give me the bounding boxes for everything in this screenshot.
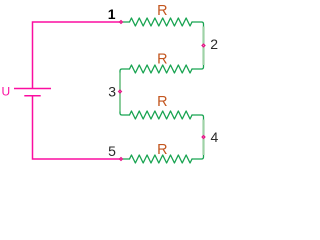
wire : R3 right lead down to R4 right lead (through node 4) [192, 115, 204, 159]
wire : soft vertical segment node 3 [119, 73, 121, 112]
wire : soft vertical segment node 4 [202, 120, 204, 156]
wire : soft vertical segment node 2 [202, 27, 204, 66]
svg-text:R: R [157, 3, 167, 19]
wire : R1 right lead down to R2 right lead (through node 2) [192, 22, 204, 69]
node 1 marker [119, 20, 124, 25]
svg-text:3: 3 [108, 83, 116, 99]
node 4 marker [201, 135, 206, 140]
node 2 marker [201, 43, 206, 48]
resistor R1 [130, 18, 192, 26]
resistor R2 [130, 65, 192, 73]
svg-text:4: 4 [211, 129, 219, 145]
node 5 marker [119, 157, 124, 162]
wire : battery top to node 1 [33, 22, 121, 88]
resistor R4 [130, 155, 192, 163]
resistor R3 [130, 111, 192, 119]
svg-text:5: 5 [108, 143, 116, 159]
wire : node 1 to R1 left lead [121, 21, 130, 23]
svg-text:2: 2 [210, 36, 218, 52]
svg-text:R: R [157, 94, 167, 110]
svg-text:U: U [2, 85, 11, 99]
node 3 marker [118, 89, 123, 94]
wire : R2 left lead down to R3 left lead (through node 3) [120, 69, 130, 115]
svg-text:R: R [157, 52, 167, 68]
battery U : long positive plate [14, 88, 51, 90]
svg-text:R: R [157, 142, 167, 158]
wire : node 5 to R4 left lead [121, 158, 130, 160]
battery U : short negative plate [24, 95, 40, 97]
svg-text:1: 1 [108, 6, 116, 22]
wire : battery bottom to node 5 [33, 96, 121, 159]
